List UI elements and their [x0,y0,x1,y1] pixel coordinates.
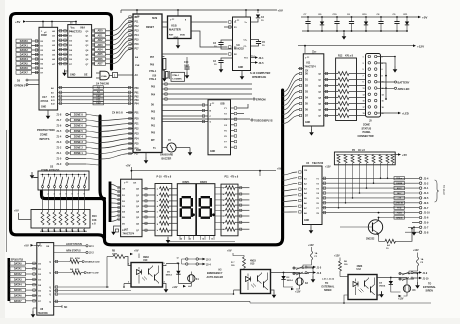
svg-text:470 x 8: 470 x 8 [345,55,354,58]
relay K2 contacts [293,267,313,269]
decoder output wires [237,104,248,108]
svg-text:J1-1: J1-1 [424,187,430,190]
svg-text:GND: GND [136,150,141,152]
wire bottom bus to opto C [343,302,345,304]
wire opto B output [274,272,284,274]
svg-text:7: 7 [78,194,79,196]
connector J5 zone status panel [366,54,381,118]
diode D9 [321,16,323,18]
svg-text:17: 17 [363,107,365,109]
U16 ground [114,226,121,229]
svg-text:NC: NC [64,307,68,309]
IC U11 latch 74HCT374 [303,54,324,126]
svg-text:ROM: ROM [41,34,47,37]
wire MCU TXD to MAX232 [162,53,228,55]
svg-text:Z1-0: Z1-0 [57,164,62,166]
svg-text:1N914: 1N914 [287,279,294,282]
svg-text:A12: A12 [96,102,101,105]
cap C6 [351,16,353,18]
svg-text:U2B: U2B [220,104,225,106]
ground for S2 [34,177,38,179]
diode D10 [365,16,367,18]
svg-text:74HCT374: 74HCT374 [305,65,317,68]
svg-text:P20: P20 [135,119,140,121]
svg-text:Z1-8: Z1-8 [57,115,62,117]
arm status output [54,252,86,254]
svg-text:ZONE 5: ZONE 5 [74,130,84,133]
svg-text:INT: INT [151,140,155,142]
wire to battery terminal [377,81,394,83]
net tag displays [162,118,250,120]
svg-text:P27: P27 [135,154,140,156]
svg-text:J3-5: J3-5 [259,62,265,65]
svg-text:4N33: 4N33 [250,260,256,263]
svg-text:6: 6 [382,69,383,71]
IC U9 MAX232 RS232 interface [233,17,251,71]
svg-text:+5V: +5V [14,209,19,213]
svg-text:DATA7: DATA7 [20,71,29,74]
svg-text:4700: 4700 [75,257,81,260]
svg-text:A10: A10 [96,95,101,98]
wire to LED supply [377,112,398,114]
svg-text:DATA2: DATA2 [20,49,29,52]
gate U14A [100,71,109,80]
svg-text:P-10: P-10 [157,175,163,178]
thick display data bus bar [109,182,112,223]
svg-text:LOOP STATUS: LOOP STATUS [66,243,82,246]
svg-text:OE: OE [46,246,50,248]
svg-text:P10: P10 [135,17,140,19]
svg-text:100K: 100K [112,253,118,255]
svg-text:1: 1 [363,57,364,59]
opto A pins [128,265,131,267]
svg-text:DATA0: DATA0 [14,262,22,265]
svg-text:P25: P25 [135,144,140,146]
relay K3 contacts [399,273,418,275]
bracket to J1/J2 [435,180,440,202]
net tag EPROM [253,98,255,100]
svg-text:470 x 8: 470 x 8 [164,175,172,178]
scan shading left edge [0,0,5,324]
svg-text:EA: EA [135,56,138,59]
svg-text:CK: CK [304,170,308,172]
wire opto C output [381,277,391,279]
cap C8 [380,16,382,18]
EPROM chip-enable pins with bubbles [28,79,39,81]
svg-text:Vcc: Vcc [71,26,76,29]
svg-text:ZONE: ZONE [40,133,48,137]
wires to lower J1 circles [379,217,420,219]
cap C19 [336,16,338,18]
wires MCU to U1B [162,21,168,23]
svg-text:ZONE: ZONE [363,124,370,127]
long wire row A [54,286,109,288]
svg-text:P24: P24 [135,138,140,141]
svg-text:+12V: +12V [325,166,331,169]
svg-text:DATA6: DATA6 [20,67,29,70]
svg-text:10: 10 [177,263,179,265]
svg-text:CK: CK [305,71,309,73]
digit 8 of DISP2 [201,196,210,198]
microcontroller U1 80C52 [133,14,162,153]
R2 disable led output [54,261,70,263]
svg-text:+12V: +12V [417,44,424,48]
IC U16 display latch 74HCT574 [121,179,142,237]
svg-text:18: 18 [382,107,384,109]
svg-text:DATA1: DATA1 [14,268,22,271]
svg-text:ZONE 8: ZONE 8 [74,114,84,117]
svg-text:P17: P17 [135,49,140,51]
svg-text:+12V: +12V [334,254,340,257]
svg-text:AD6: AD6 [97,58,103,61]
svg-text:GND: GND [41,107,46,109]
svg-text:GND: GND [304,220,309,222]
IC U17 EPROM 27C64 [39,27,58,110]
wire opto A output [166,263,178,265]
svg-text:P21: P21 [135,124,140,126]
svg-text:S2: S2 [50,164,54,168]
svg-text:ZONE 6: ZONE 6 [74,125,84,128]
svg-text:J1-10: J1-10 [423,278,430,280]
svg-text:U11: U11 [306,62,311,65]
svg-text:P23: P23 [135,134,140,136]
svg-text:J2-3: J2-3 [206,259,211,261]
svg-text:7: 7 [234,262,235,264]
svg-text:+5V: +5V [15,20,20,24]
svg-text:INPUTS: INPUTS [40,137,50,141]
svg-text:P04: P04 [151,93,156,96]
svg-text:74HCT574: 74HCT574 [123,233,135,236]
svg-text:DATA0: DATA0 [20,40,29,43]
J5 right side wires [377,57,395,67]
U1B ground [177,39,179,43]
svg-text:P15: P15 [135,40,140,42]
svg-text:+5V: +5V [126,163,131,167]
wires port0 to EPROM/display tags [162,83,252,85]
svg-text:+12V: +12V [295,291,301,293]
svg-text:GND: GND [305,122,310,124]
svg-text:27C64: 27C64 [41,99,49,103]
svg-text:U10: U10 [143,259,148,262]
svg-text:J1-2: J1-2 [424,182,430,185]
svg-text:13: 13 [363,94,365,96]
svg-text:J2-2: J2-2 [89,253,94,255]
svg-text:Z1-6: Z1-6 [57,126,62,128]
opto C pins [344,295,348,303]
svg-text:P22: P22 [135,129,140,131]
wire Q1 collector to row [378,217,380,219]
svg-text:ZONE 2: ZONE 2 [74,147,84,150]
svg-text:DATA2: DATA2 [14,273,22,276]
svg-text:Z1-5: Z1-5 [57,131,62,133]
svg-text:+5V: +5V [422,16,427,20]
EPROM ground pin [47,110,49,113]
svg-text:U14A: U14A [101,75,107,78]
svg-text:P62: P62 [135,96,140,98]
wire EPROM Vcc drops [42,22,44,28]
svg-text:P07: P07 [150,57,155,59]
svg-text:12: 12 [177,258,179,260]
signal rows U4 to terminal strip J1 [322,177,419,179]
svg-text:TO: TO [428,283,431,286]
svg-text:U10: U10 [152,76,157,78]
svg-text:ZONE 7: ZONE 7 [74,119,84,122]
svg-text:C10: C10 [184,61,189,64]
svg-text:P12: P12 [135,26,140,28]
svg-text:XTAL1: XTAL1 [149,70,157,73]
U4 ground [310,225,312,228]
svg-text:XTAL1: XTAL1 [172,74,180,77]
svg-text:ZONE 3: ZONE 3 [74,141,84,144]
svg-text:Z1-1: Z1-1 [57,153,62,155]
svg-text:DATA6: DATA6 [14,294,22,297]
svg-text:1K x 8: 1K x 8 [358,150,365,152]
svg-text:MASTER: MASTER [169,27,181,31]
svg-text:AD7: AD7 [97,63,103,66]
ground arrow K2 contacts [312,268,314,276]
svg-text:MOD: MOD [180,35,186,37]
svg-text:SIREN: SIREN [426,290,434,293]
svg-text:U17: U17 [42,95,47,99]
svg-text:SIREN: SIREN [324,289,332,292]
svg-text:DATA5: DATA5 [20,62,29,65]
wire to arm led terminal [377,87,394,89]
svg-text:470 x 8: 470 x 8 [231,175,239,178]
svg-text:EXTERNAL: EXTERNAL [322,286,335,289]
svg-text:PROTECTION: PROTECTION [37,128,55,132]
svg-text:J1-9: J1-9 [423,273,428,275]
svg-text:AD5: AD5 [97,53,103,56]
R10 bottom commoning wire [40,230,87,232]
svg-text:J1-6: J1-6 [317,273,322,275]
thick border around EPROM/zone section (left module outline) [11,14,283,245]
diode D2 1N914 [283,273,285,277]
svg-text:5: 5 [363,69,364,71]
svg-text:+5V: +5V [24,244,29,248]
svg-text:DISABLE LED: DISABLE LED [85,261,100,264]
svg-text:RESET: RESET [146,26,155,29]
cap C9 [396,16,398,18]
svg-text:C1-: C1- [244,46,248,48]
svg-text:SUM: SUM [152,18,157,20]
svg-text:AD3: AD3 [97,44,103,47]
svg-text:8: 8 [84,194,85,196]
svg-text:19: 19 [363,113,365,115]
relay K1 [178,282,191,284]
svg-text:AD4: AD4 [97,49,103,52]
cap C7 [307,16,309,18]
svg-text:DATA5: DATA5 [14,289,22,292]
J1 terminal circles [419,177,422,180]
svg-text:74HCT240: 74HCT240 [312,162,324,165]
scan shading bottom edge [0,318,460,324]
svg-text:+12V: +12V [172,287,178,289]
long wire row C [54,293,234,295]
latch output labels AD0-AD7 [95,29,106,33]
svg-text:+12V: +12V [398,298,404,300]
svg-text:( J2-1, J2-2): ( J2-1, J2-2) [322,279,334,281]
svg-text:Z1-4: Z1-4 [57,136,62,139]
svg-text:2: 2 [48,194,49,196]
EA pull resistor block [162,56,164,58]
filter rail ground [343,31,345,33]
svg-text:INTERFACE: INTERFACE [252,76,267,79]
svg-text:J2-6: J2-6 [424,202,430,205]
svg-text:EMERGENCY: EMERGENCY [207,272,223,275]
svg-text:AUTO-DIALER: AUTO-DIALER [207,276,224,279]
MAX232 ground [241,71,243,74]
svg-text:10K: 10K [92,219,97,222]
svg-text:Z1-0: Z1-0 [57,159,62,161]
svg-text:J1-3: J1-3 [424,192,430,195]
svg-text:2N2222: 2N2222 [366,237,375,240]
wires EPROM A8-A12 to microcontroller [58,87,133,89]
svg-text:3: 3 [54,194,55,196]
svg-text:GND: GND [70,74,76,77]
svg-text:J2-5: J2-5 [424,197,430,200]
resistor R5 emitter [378,237,380,242]
svg-text:4N33: 4N33 [143,256,149,259]
svg-text:EXTERNAL: EXTERNAL [423,286,436,289]
zone bus fan to MCU port 2 [100,119,133,121]
svg-text:+5V: +5V [277,168,282,171]
svg-text:+12V: +12V [308,244,314,247]
svg-text:14: 14 [180,237,182,240]
svg-text:U6A: U6A [80,27,85,30]
svg-text:ZONE 1: ZONE 1 [74,152,84,155]
svg-text:J1-8: J1-8 [424,231,430,234]
svg-text:J1-10: J1-10 [424,212,431,215]
svg-text:ZX IN 1-8: ZX IN 1-8 [112,112,123,115]
ground arrow K3 contacts [417,274,419,283]
svg-text:P02: P02 [151,119,156,121]
svg-text:1N914: 1N914 [166,274,173,277]
svg-text:ARM IN: ARM IN [395,202,403,205]
svg-text:J1-7: J1-7 [424,207,430,210]
relay K2 [296,278,303,285]
svg-text:U15: U15 [250,263,255,266]
+5V filter rail [301,16,418,18]
display bottom pins [179,236,181,240]
svg-text:J1-7: J1-7 [424,226,430,229]
svg-text:R10: R10 [92,215,97,218]
svg-text:T1O: T1O [251,56,255,58]
svg-text:14: 14 [202,237,204,240]
data bus bar bottom left [8,258,11,301]
thick branch up from bottom corner (display module left edge) [42,191,105,238]
EPROM address pin wires to latch [58,30,68,32]
U11 ground [311,126,313,129]
svg-text:AD2: AD2 [97,39,103,42]
svg-text:DATA1: DATA1 [20,44,29,47]
svg-text:XTAL2: XTAL2 [149,78,157,81]
svg-text:6: 6 [72,194,73,196]
U8 ground [33,307,37,309]
svg-text:STATUS: STATUS [362,127,372,130]
diode D6 1N914 [177,264,179,271]
svg-text:DATA3: DATA3 [20,53,29,56]
svg-text:1A: 1A [315,252,318,255]
connector to auto dialer [186,258,188,260]
svg-text:P61: P61 [135,93,140,95]
svg-text:Z1-3: Z1-3 [57,142,62,144]
svg-text:R12: R12 [338,55,343,58]
svg-text:TO: TO [325,282,328,285]
svg-text:P60: P60 [135,88,140,90]
MAX232 V+ diode C4 [251,19,259,22]
svg-text:1A: 1A [421,258,424,261]
U1B output loop wires to MAX232 [191,21,228,23]
svg-text:13: 13 [189,238,191,240]
svg-text:P01: P01 [151,126,156,128]
svg-text:P11: P11 [225,175,230,178]
svg-text:P64: P64 [135,103,140,106]
svg-text:13: 13 [211,238,213,240]
svg-text:OE: OE [84,74,88,77]
svg-text:+LED: +LED [402,112,409,116]
svg-text:S-10 COMPUTER: S-10 COMPUTER [250,72,270,75]
svg-text:EPROM: EPROM [256,98,266,102]
svg-text:5: 5 [66,194,67,196]
svg-text:ON-BOARD: ON-BOARD [160,154,173,157]
down arrow near J1 [413,229,415,231]
svg-text:EXIT: EXIT [397,188,403,190]
svg-text:TXD: TXD [397,208,402,210]
relay K3 [403,285,410,292]
svg-text:9: 9 [363,82,364,84]
MAX232 serial outputs to J3 [251,57,257,59]
crystal Y1 7.3728MHz [162,70,164,72]
bus fan to U11 inputs [283,74,300,93]
svg-text:J3-1: J3-1 [259,57,265,60]
long wire row D full width [54,300,250,302]
svg-text:U12: U12 [357,268,362,271]
svg-text:+5V: +5V [402,153,407,157]
svg-text:+5V: +5V [227,250,232,253]
opto B pins [243,269,245,271]
svg-text:P16: P16 [135,44,140,46]
wires S2 to resistor pack R10 [42,190,44,212]
svg-text:CK: CK [133,183,137,185]
svg-text:J2-1: J2-1 [89,246,94,248]
svg-text:GND: GND [238,67,243,69]
diode D11 [406,16,408,18]
svg-text:DATA: DATA [396,182,402,185]
scan edge line left [6,130,8,252]
svg-text:+5V: +5V [134,250,139,253]
svg-text:DATA7: DATA7 [14,300,22,303]
svg-text:J1-4: J1-4 [424,177,430,180]
svg-text:DATA3: DATA3 [14,278,22,281]
svg-text:ZONE 4: ZONE 4 [74,136,84,139]
wires MCU to decoder U18 [162,104,208,106]
svg-text:PANEL: PANEL [363,131,372,134]
svg-text:P63: P63 [135,100,140,102]
svg-text:3: 3 [363,63,364,65]
svg-text:TO J1/J2: TO J1/J2 [442,185,445,195]
svg-text:+5V: +5V [278,9,283,13]
svg-text:P14: P14 [135,34,140,37]
svg-text:RCL+: RCL+ [396,178,402,180]
svg-text:7: 7 [363,75,364,77]
svg-text:P51: P51 [135,113,140,115]
digit 8 of DISP1 [182,196,191,198]
thick zone input bus [100,116,105,199]
svg-text:16: 16 [382,101,384,103]
+12V rail [298,45,413,47]
svg-text:BUZZER: BUZZER [162,157,172,160]
transistor Q1 [368,220,382,234]
